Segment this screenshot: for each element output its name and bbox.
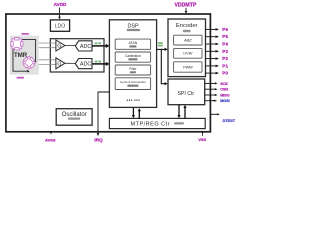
pin MOSI bbox=[205, 99, 230, 103]
svg-text:P6: P6 bbox=[222, 27, 228, 32]
pin AVSS bbox=[45, 132, 56, 143]
svg-text:ABZ: ABZ bbox=[183, 38, 192, 43]
wire TMR sin+ bbox=[39, 42, 56, 44]
net label COS (green) bbox=[95, 61, 102, 63]
node label below TMR bbox=[17, 77, 24, 79]
svg-text:Cycle & Revolution: Cycle & Revolution bbox=[120, 80, 146, 84]
svg-text:Calibration: Calibration bbox=[125, 54, 141, 58]
wire TMR cos+ bbox=[39, 59, 56, 61]
wire DSP to MTP (down) bbox=[132, 108, 135, 118]
svg-text:SPI Ctr: SPI Ctr bbox=[177, 91, 194, 97]
bridge B2 (diamond) bbox=[23, 56, 36, 69]
pin P1 bbox=[206, 63, 229, 68]
svg-text:P4: P4 bbox=[222, 42, 228, 47]
wire G2 to ADC2 bbox=[65, 62, 76, 64]
wire SPI to MTP (down) bbox=[177, 105, 180, 119]
svg-text:DTEST: DTEST bbox=[223, 119, 236, 123]
pin CSN bbox=[205, 88, 229, 92]
svg-text:Encoder: Encoder bbox=[176, 23, 198, 29]
SPI controller block bbox=[168, 79, 205, 105]
svg-text:ADC: ADC bbox=[80, 44, 91, 50]
DSP block bbox=[109, 20, 156, 108]
svg-text:G: G bbox=[57, 61, 61, 67]
DSP sub-block Filter bbox=[115, 65, 150, 75]
ADC2 bbox=[75, 59, 92, 69]
svg-text:G: G bbox=[57, 44, 61, 50]
wire output bus vertical bbox=[160, 49, 162, 83]
Encoder sub-block ABZ bbox=[174, 35, 202, 45]
svg-text:Oscillator: Oscillator bbox=[62, 112, 87, 118]
wire MTP to DSP (up) bbox=[138, 108, 141, 118]
chip outer border bbox=[6, 14, 211, 132]
svg-text:IRQ: IRQ bbox=[94, 137, 103, 143]
wire DSP output stub bbox=[157, 48, 162, 50]
wire TMR cos- bbox=[39, 64, 56, 66]
wire bridge top bbox=[22, 40, 36, 63]
Encoder sub-block PWM bbox=[174, 62, 202, 72]
bridge B1 (square) bbox=[11, 38, 23, 50]
Oscillator block bbox=[56, 109, 92, 126]
pin MISO bbox=[205, 93, 230, 97]
svg-text:P2: P2 bbox=[222, 56, 228, 61]
net label angle (green) bbox=[158, 42, 163, 46]
wire VDDMTP to border bbox=[185, 8, 188, 14]
svg-text:AVSS: AVSS bbox=[45, 137, 56, 142]
pin P0 bbox=[206, 71, 229, 76]
svg-text:CSN: CSN bbox=[220, 88, 228, 92]
node label above TMR bbox=[21, 33, 29, 35]
svg-text:P3: P3 bbox=[222, 49, 228, 54]
pin P3 bbox=[206, 49, 229, 54]
svg-text:P1: P1 bbox=[222, 63, 228, 68]
MTP/REG controller block bbox=[109, 118, 205, 128]
svg-text:MTP/REG Ctr: MTP/REG Ctr bbox=[131, 121, 170, 127]
svg-text:VDDMTP: VDDMTP bbox=[174, 3, 196, 9]
svg-text:P0: P0 bbox=[222, 71, 228, 76]
pin P2 bbox=[206, 56, 229, 61]
regulator LDO bbox=[50, 20, 69, 31]
wire ADC1 to DSP bbox=[92, 44, 109, 48]
wire bus to Encoder bbox=[161, 48, 168, 51]
ADC1 bbox=[75, 41, 92, 51]
wire AVDD to LDO bbox=[58, 8, 61, 20]
Encoder block bbox=[168, 19, 206, 77]
pin DTEST bbox=[211, 113, 236, 123]
pin P6 bbox=[206, 27, 229, 32]
DSP sub-block ATAN bbox=[115, 39, 150, 49]
svg-text:Filter: Filter bbox=[129, 67, 137, 71]
amplifier G1 bbox=[56, 40, 65, 51]
wire bridge bottom bbox=[13, 49, 30, 73]
net label SIN (green) bbox=[95, 42, 102, 44]
amplifier G2 bbox=[56, 58, 65, 69]
svg-text:AVDD: AVDD bbox=[54, 2, 67, 7]
Encoder sub-block UVW bbox=[174, 48, 202, 58]
svg-text:PWM: PWM bbox=[183, 64, 193, 69]
svg-text:DSP: DSP bbox=[127, 24, 138, 30]
wire G1 to ADC1 bbox=[65, 45, 76, 47]
pin VSS bbox=[198, 132, 206, 142]
wire DSP to IRQ bbox=[97, 92, 110, 136]
wire MTP to SPI (up) bbox=[183, 105, 186, 119]
svg-text:LDO: LDO bbox=[55, 23, 66, 29]
pin P4 bbox=[206, 42, 229, 47]
DSP ellipsis bbox=[127, 99, 140, 100]
DSP sub-block Calibration bbox=[115, 52, 150, 62]
svg-text:P5: P5 bbox=[222, 34, 228, 39]
wire bus to SPI bbox=[161, 82, 168, 85]
wire ADC2 to DSP bbox=[92, 62, 109, 66]
DSP sub-block Cycle & Revolution bbox=[115, 78, 150, 90]
svg-text:SCK: SCK bbox=[220, 82, 228, 86]
svg-text:UVW: UVW bbox=[183, 51, 192, 56]
sensor block TMR (gray) bbox=[10, 36, 39, 75]
svg-text:MOSI: MOSI bbox=[220, 99, 229, 103]
svg-text:VSS: VSS bbox=[198, 137, 206, 142]
pin P5 bbox=[206, 34, 229, 39]
analog front-end box bbox=[50, 39, 104, 72]
wire TMR sin- bbox=[39, 47, 56, 49]
svg-text:ATAN: ATAN bbox=[129, 41, 138, 45]
pin SCK bbox=[205, 82, 229, 86]
svg-text:MISO: MISO bbox=[220, 93, 230, 97]
svg-text:ADC: ADC bbox=[80, 62, 91, 68]
